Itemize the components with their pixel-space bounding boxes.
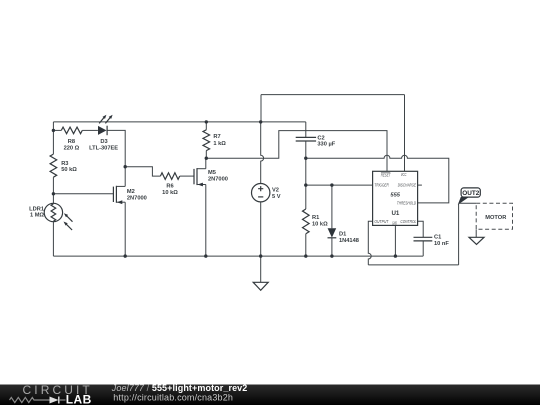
logo resistor zigzag <box>10 397 50 402</box>
svg-text:D1: D1 <box>339 232 346 238</box>
node R7 bottom <box>205 157 208 160</box>
resistor R8 <box>61 127 82 151</box>
svg-text:LAB: LAB <box>66 393 92 405</box>
resistor R6 <box>160 173 179 196</box>
voltage source V2 <box>252 184 281 202</box>
svg-text:OUTPUT: OUTPUT <box>374 219 388 224</box>
svg-text:10 nF: 10 nF <box>434 241 449 247</box>
wire C1 bottom lead <box>422 241 424 256</box>
node M2 gate branch <box>52 192 55 195</box>
wire left rail middle <box>52 177 54 203</box>
wire R8 to D3 <box>82 129 98 131</box>
wire OUT2 to motor <box>459 202 477 204</box>
svg-text:10 kΩ: 10 kΩ <box>312 222 328 228</box>
svg-text:R1: R1 <box>312 215 319 221</box>
wire CONTROL to C1 <box>418 221 424 237</box>
node 555 gnd rail <box>394 254 397 257</box>
ground symbol below V2 <box>253 282 268 290</box>
svg-text:RESET: RESET <box>381 172 391 177</box>
capacitor C2 <box>296 135 336 147</box>
svg-text:TRIGGER: TRIGGER <box>374 183 388 188</box>
svg-text:OUT2: OUT2 <box>462 190 479 197</box>
svg-text:1N4148: 1N4148 <box>339 238 359 244</box>
node V2 minus rail <box>259 254 262 257</box>
node trigger <box>304 183 307 186</box>
wire OUTPUT run with hop <box>368 221 372 265</box>
wire node to 555 RESET <box>206 131 387 172</box>
resistor R3 <box>50 154 77 177</box>
resistor R1 <box>303 209 329 234</box>
op-amp U1 555 timer box <box>373 171 418 225</box>
wire R8 left lead <box>53 129 61 131</box>
wire M5 drain <box>205 158 207 169</box>
svg-text:R8: R8 <box>68 139 75 145</box>
svg-text:Joel777 / 555+light+motor_rev2: Joel777 / 555+light+motor_rev2 <box>111 383 248 393</box>
node M5 source rail <box>204 254 207 257</box>
svg-text:10 kΩ: 10 kΩ <box>162 190 178 196</box>
wire D3 cathode run <box>107 130 125 166</box>
svg-text:VCC: VCC <box>401 172 407 177</box>
node M2 source rail <box>124 254 127 257</box>
wire trigger riser <box>305 158 307 185</box>
node D1 cathode rail <box>330 254 333 257</box>
wire D1 cathode lead <box>331 238 333 256</box>
transistor M5 <box>194 168 228 186</box>
wire left rail upper <box>52 122 54 154</box>
transistor M2 <box>113 186 146 204</box>
svg-text:LTL-307EE: LTL-307EE <box>89 145 118 151</box>
svg-text:V2: V2 <box>272 188 279 194</box>
resistor R7 <box>203 130 226 151</box>
wire M2 drain <box>124 167 126 187</box>
svg-text:2N7000: 2N7000 <box>208 176 228 182</box>
wire V2 plus riser with hop <box>261 122 264 184</box>
wire R7 top lead <box>205 122 207 130</box>
motor dashed box <box>476 203 512 229</box>
wire C2 bottom lead <box>305 141 307 158</box>
svg-text:C1: C1 <box>434 234 441 240</box>
svg-text:http://circuitlab.com/cna3b2h: http://circuitlab.com/cna3b2h <box>113 393 233 403</box>
svg-text:M2: M2 <box>127 189 135 195</box>
photoresistor LDR1 <box>29 203 72 230</box>
wire M2 source <box>124 202 126 256</box>
flag OUT2 <box>458 188 481 205</box>
node D1 anode <box>330 183 333 186</box>
wire V2 minus to ground <box>260 202 262 282</box>
svg-text:555: 555 <box>390 193 401 199</box>
svg-text:MOTOR: MOTOR <box>485 215 506 221</box>
svg-text:DISCHARGE: DISCHARGE <box>398 183 417 188</box>
footer bar <box>0 385 540 405</box>
wire 555 GND pin <box>394 225 396 256</box>
node R1 bottom rail <box>304 254 307 257</box>
wire M2 gate lead <box>53 193 113 195</box>
wire ground rail <box>53 255 423 257</box>
wire left rail lower <box>52 221 54 256</box>
svg-text:C2: C2 <box>317 135 324 141</box>
wire D1 anode lead <box>331 185 333 228</box>
wire C2 node to THRESHOLD with hops <box>306 155 449 203</box>
wire M2 drain to R6 <box>125 167 160 176</box>
capacitor C1 <box>414 234 450 247</box>
svg-text:LDR1: LDR1 <box>29 206 44 212</box>
svg-text:R3: R3 <box>61 161 68 167</box>
wire R1 top lead <box>305 185 307 209</box>
svg-text:50 kΩ: 50 kΩ <box>61 167 77 173</box>
wire motor to ground <box>475 229 477 237</box>
node M2 drain junction <box>124 165 127 168</box>
wire M5 source <box>205 185 207 257</box>
wire 555 VCC pin riser <box>404 95 406 172</box>
svg-text:R6: R6 <box>166 184 173 190</box>
wire R6 to M5 gate <box>180 175 194 177</box>
svg-text:D3: D3 <box>100 139 107 145</box>
node C2 bottom <box>304 157 307 160</box>
wire C2 top lead <box>305 122 307 137</box>
ground symbol below motor <box>469 237 484 244</box>
svg-text:M5: M5 <box>208 170 216 176</box>
wire output riser to OUT2 <box>458 204 460 265</box>
diode D1 <box>328 228 359 244</box>
svg-text:CONTROL: CONTROL <box>400 219 416 224</box>
svg-text:330 µF: 330 µF <box>317 142 335 148</box>
svg-text:1 MΩ: 1 MΩ <box>30 213 44 219</box>
svg-text:1 kΩ: 1 kΩ <box>213 141 226 147</box>
svg-text:GND: GND <box>392 220 397 225</box>
svg-text:2N7000: 2N7000 <box>127 195 147 201</box>
svg-text:5 V: 5 V <box>272 194 281 200</box>
wire DISCHARGE stub <box>418 184 422 186</box>
wire output bottom run <box>368 264 458 266</box>
wire R7 bottom lead <box>205 151 207 159</box>
wire Vcc rail <box>53 121 305 123</box>
LED D3 <box>89 115 118 152</box>
logo diode <box>50 397 66 404</box>
node V2 plus <box>259 120 262 123</box>
node R7 top <box>205 120 208 123</box>
svg-text:U1: U1 <box>391 210 399 217</box>
wire trigger run <box>306 184 373 186</box>
wire Vcc top run <box>261 94 405 96</box>
svg-text:THRESHOLD: THRESHOLD <box>397 201 416 206</box>
node R8 branch <box>52 129 55 132</box>
wire V+ node drop <box>260 95 262 122</box>
svg-text:220 Ω: 220 Ω <box>64 145 80 151</box>
wire R1 bottom lead <box>305 234 307 256</box>
svg-text:R7: R7 <box>213 134 220 140</box>
